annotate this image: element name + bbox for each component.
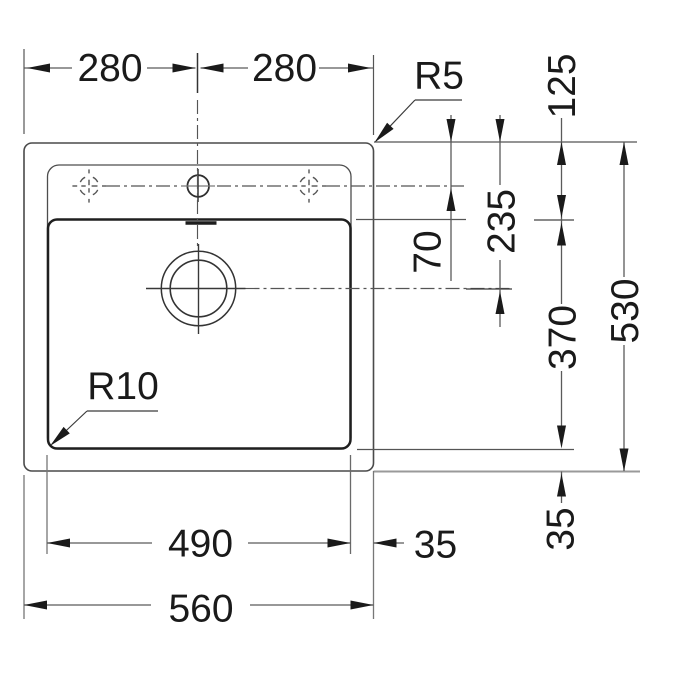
svg-text:70: 70	[407, 230, 450, 273]
svg-text:35: 35	[540, 507, 583, 550]
svg-text:35: 35	[414, 524, 457, 567]
svg-text:125: 125	[541, 53, 584, 118]
svg-text:280: 280	[252, 47, 317, 90]
svg-text:530: 530	[604, 278, 647, 343]
svg-text:R10: R10	[87, 365, 159, 408]
svg-text:370: 370	[542, 305, 585, 370]
svg-text:R5: R5	[414, 55, 464, 98]
svg-text:280: 280	[77, 47, 142, 90]
svg-text:490: 490	[168, 523, 233, 566]
svg-text:560: 560	[168, 588, 233, 631]
svg-text:235: 235	[481, 189, 524, 254]
